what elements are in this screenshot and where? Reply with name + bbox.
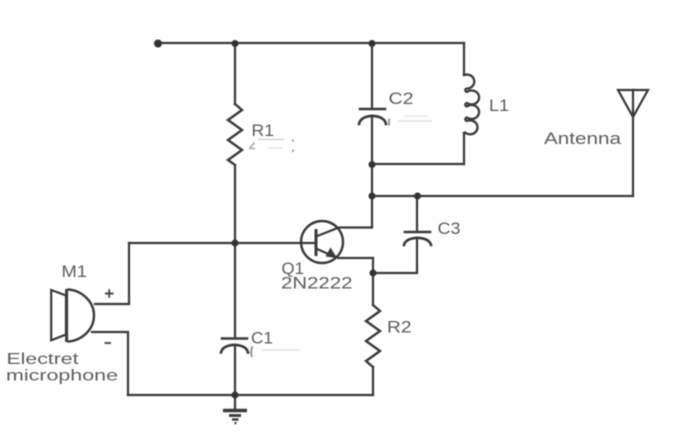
label plus <box>105 289 114 297</box>
wire collector horizontal <box>316 228 372 237</box>
wire emitter node vertical <box>372 258 374 273</box>
wire R2 upper <box>372 273 374 305</box>
erased value artifact near C1 <box>251 347 300 358</box>
node terminal dot top-left <box>154 40 162 48</box>
wire C2 bottom to tank node <box>371 116 373 196</box>
node junction tank bottom <box>369 161 376 168</box>
wire R2 lower <box>372 367 374 395</box>
svg-text:C3: C3 <box>438 219 461 238</box>
wire tank bottom horizontal <box>372 163 464 165</box>
capacitor C2 <box>359 109 386 124</box>
wire collector vertical <box>371 196 373 228</box>
wire C1 bottom <box>234 345 236 395</box>
svg-text:R1: R1 <box>252 121 275 140</box>
svg-text:M1: M1 <box>62 262 88 281</box>
antenna symbol <box>618 90 648 117</box>
wire mic plus vertical <box>95 243 129 304</box>
wire L1 branch vertical upper <box>463 43 465 75</box>
node junction R1 top <box>232 40 239 47</box>
node junction ground <box>232 392 239 399</box>
wire L1 lower <box>463 133 465 164</box>
node junction C2 top <box>369 40 376 47</box>
wire C3 top vertical <box>416 196 418 231</box>
svg-text:Electret: Electret <box>7 351 80 368</box>
wire C3 bottom <box>373 238 417 273</box>
resistor R2 <box>366 305 380 367</box>
capacitor C3 <box>404 232 431 245</box>
wire C2 branch upper <box>371 43 373 108</box>
wire antenna feed horizontal <box>372 195 633 197</box>
node junction emitter <box>370 270 377 277</box>
node junction C3 top <box>414 193 421 200</box>
node junction antenna feed <box>369 193 376 200</box>
erased value artifact near C2 <box>389 116 432 126</box>
transistor Q1 <box>301 221 343 263</box>
inductor L1 <box>464 75 479 135</box>
wire antenna vertical <box>632 90 634 196</box>
label minus <box>105 342 112 344</box>
transistor Q1 emitter arrow <box>326 248 338 259</box>
wire C1 branch upper <box>234 243 236 338</box>
svg-text:L1: L1 <box>489 96 509 115</box>
capacitor C1 <box>221 339 248 353</box>
erased value artifact near R1 <box>250 140 294 153</box>
wire R1 to base node <box>234 165 236 243</box>
svg-text:R2: R2 <box>387 318 412 337</box>
wire emitter horizontal <box>336 257 373 258</box>
svg-text:microphone: microphone <box>6 368 118 385</box>
svg-text:Antenna: Antenna <box>544 129 622 148</box>
wire mic minus <box>92 332 128 395</box>
svg-text:C1: C1 <box>251 329 273 348</box>
wire ground stem <box>234 395 236 409</box>
wire top supply rail <box>158 42 464 44</box>
node junction base <box>232 240 239 247</box>
svg-text:2N2222: 2N2222 <box>281 274 353 293</box>
wire bottom rail <box>128 394 373 396</box>
svg-text:C2: C2 <box>389 89 414 108</box>
microphone M1 <box>51 289 94 342</box>
wire R1 branch vertical upper <box>234 43 236 104</box>
resistor R1 <box>228 104 242 165</box>
wire base horizontal <box>129 242 316 244</box>
ground <box>223 411 247 424</box>
